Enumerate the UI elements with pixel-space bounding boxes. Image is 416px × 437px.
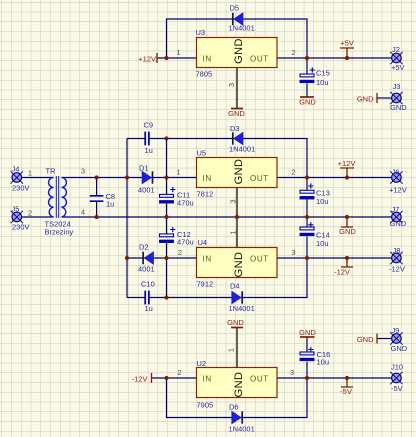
svg-text:OUT: OUT — [250, 255, 269, 264]
svg-text:1N4001: 1N4001 — [229, 304, 255, 313]
svg-text:10u: 10u — [316, 197, 329, 206]
svg-text:OUT: OUT — [250, 375, 269, 384]
svg-text:C10: C10 — [141, 280, 155, 289]
wire C10 row left segment — [127, 297, 145, 299]
svg-text:+12V: +12V — [389, 186, 407, 195]
wire C9 right through D3 then down to +12V rail — [150, 139, 307, 178]
svg-text:U4: U4 — [198, 238, 208, 247]
wire D5 loop from U3 input node up and over to U3 output node — [167, 19, 308, 58]
svg-text:J4: J4 — [12, 165, 20, 174]
svg-text:3: 3 — [291, 248, 295, 257]
svg-text:10u: 10u — [316, 239, 329, 248]
power port +12V on +12V rail — [338, 159, 356, 178]
capacitor C10 1u — [141, 280, 155, 314]
wire U4 IN node vertical down to D4 row — [166, 258, 168, 298]
wire -5V rail from U2 OUT to J10 — [277, 377, 392, 379]
power port GND above C16 — [299, 328, 316, 337]
wire +5V rail from U3 OUT to J2 — [277, 57, 392, 59]
wire transformer pin2 lead from J5 — [21, 216, 53, 218]
wire D6 loop under U2 — [167, 378, 308, 418]
svg-text:+5V: +5V — [340, 39, 354, 48]
svg-text:J2: J2 — [392, 45, 400, 54]
connector J2 +5V — [390, 45, 404, 72]
capacitor C13 10u polarized — [300, 183, 330, 206]
wire node C9right-D1cathode vertical — [166, 139, 168, 178]
svg-text:Brzeziny: Brzeziny — [45, 228, 74, 237]
svg-text:GND: GND — [233, 159, 245, 185]
diode D1 4001 — [138, 164, 155, 195]
power port GND at J3 — [357, 93, 377, 104]
svg-text:GND: GND — [390, 219, 407, 228]
svg-text:GND: GND — [339, 227, 356, 236]
wire D2 row to U4 IN — [127, 257, 197, 259]
svg-text:U3: U3 — [196, 28, 206, 37]
svg-text:-12V: -12V — [132, 375, 148, 384]
svg-text:7812: 7812 — [197, 190, 214, 199]
wire -12V rail from U4 OUT to J8 — [277, 257, 392, 259]
power port GND above U2 pin 1 — [227, 318, 244, 328]
svg-text:GND: GND — [357, 95, 374, 104]
svg-text:GND: GND — [233, 252, 245, 278]
svg-text:-12V: -12V — [334, 268, 350, 277]
svg-text:10u: 10u — [316, 78, 329, 87]
wire U5 GND pin 3 and U4 GND pin 1 — [236, 188, 238, 248]
svg-text:U2: U2 — [197, 359, 207, 368]
svg-text:IN: IN — [203, 174, 212, 183]
svg-text:IN: IN — [203, 255, 212, 264]
connector J3 GND — [390, 82, 407, 112]
wire -12V port to U2 IN pin 2 — [152, 377, 197, 379]
connector J8 -12V — [389, 246, 405, 274]
svg-text:GND: GND — [233, 38, 245, 64]
svg-text:1N4001: 1N4001 — [229, 425, 255, 434]
svg-text:-5V: -5V — [391, 384, 403, 393]
capacitor C12 470u polarized — [159, 227, 193, 247]
capacitor C8 1u — [90, 192, 115, 209]
svg-text:1N4001: 1N4001 — [229, 145, 255, 154]
svg-text:IN: IN — [203, 55, 212, 64]
wire C12 stems — [166, 217, 168, 258]
svg-text:1: 1 — [176, 48, 180, 57]
svg-text:3: 3 — [290, 368, 294, 377]
power port GND on GND rail — [339, 217, 356, 236]
wire transformer pin1 lead from J4 — [21, 177, 53, 179]
svg-text:J7: J7 — [392, 205, 400, 214]
svg-text:1u: 1u — [145, 304, 153, 313]
svg-text:2: 2 — [178, 248, 182, 257]
regulator U4 7912 — [178, 230, 296, 288]
transformer TR TS2024 — [45, 167, 86, 237]
power port +12V at U3 input — [138, 53, 157, 64]
power port GND below C15 — [299, 97, 316, 107]
capacitor C15 10u polarized — [300, 67, 330, 87]
wire +12V rail from U5 OUT to J6 — [277, 177, 392, 179]
svg-text:IN: IN — [203, 375, 212, 384]
svg-text:OUT: OUT — [250, 174, 269, 183]
svg-text:+12V: +12V — [138, 55, 156, 64]
svg-text:1N4001: 1N4001 — [229, 24, 255, 33]
power port -12V at U2 input — [132, 373, 152, 384]
power port GND below U3 pin 3 — [228, 109, 245, 119]
svg-text:4: 4 — [81, 208, 85, 217]
capacitor C9 1u — [144, 121, 154, 156]
svg-text:GND: GND — [391, 344, 408, 353]
svg-text:GND: GND — [299, 328, 316, 337]
svg-text:4001: 4001 — [138, 265, 155, 274]
svg-text:J8: J8 — [393, 246, 401, 255]
wire C11 stems — [166, 178, 168, 218]
power port +5V on +5V rail — [340, 39, 354, 59]
wire C14 stems — [306, 217, 308, 258]
capacitor C11 470u polarized — [159, 187, 193, 208]
connector J10 -5V — [390, 363, 403, 394]
svg-text:C15: C15 — [316, 69, 330, 78]
svg-text:J10: J10 — [391, 363, 403, 372]
svg-text:D3: D3 — [230, 124, 240, 133]
connector J7 GND — [390, 205, 407, 228]
svg-text:GND: GND — [227, 318, 244, 327]
wire U2 GND pin 1 up to GND port — [236, 328, 238, 368]
power port GND at J9 — [357, 334, 377, 345]
svg-text:3: 3 — [81, 167, 85, 176]
svg-text:1: 1 — [227, 348, 236, 352]
svg-text:D5: D5 — [230, 4, 240, 13]
svg-text:D6: D6 — [229, 403, 239, 412]
svg-text:+5V: +5V — [391, 63, 405, 72]
svg-text:230V: 230V — [12, 184, 30, 193]
svg-text:GND: GND — [390, 103, 407, 112]
svg-text:7905: 7905 — [197, 401, 214, 410]
svg-text:2: 2 — [177, 368, 181, 377]
svg-text:1: 1 — [28, 169, 32, 178]
connector J6 +12V — [389, 168, 407, 195]
svg-text:7912: 7912 — [197, 280, 214, 289]
svg-text:D4: D4 — [230, 282, 240, 291]
svg-text:1u: 1u — [106, 200, 114, 209]
diode D5 1N4001 — [229, 4, 255, 33]
svg-text:230V: 230V — [12, 223, 30, 232]
regulator U2 7905 — [177, 348, 294, 410]
svg-text:470u: 470u — [177, 238, 194, 247]
svg-text:D2: D2 — [139, 243, 149, 252]
svg-text:10u: 10u — [317, 358, 330, 367]
svg-text:GND: GND — [228, 109, 245, 118]
diode D6 1N4001 — [229, 403, 255, 434]
wire C8 stems — [96, 178, 98, 218]
svg-text:3: 3 — [229, 199, 238, 203]
svg-text:2: 2 — [291, 168, 295, 177]
regulator U3 7805 — [176, 28, 295, 87]
wire C13 stems — [306, 178, 308, 218]
wire C15 stems — [306, 58, 308, 97]
wire U3 GND pin 3 down to GND port — [236, 68, 238, 109]
svg-text:3: 3 — [227, 83, 236, 87]
wire transformer pin3 row through D1 to U5 IN — [62, 177, 197, 179]
svg-text:TR: TR — [46, 167, 57, 176]
diode D3 1N4001 — [229, 124, 255, 154]
wire +12V port to U3 IN pin 1 — [157, 57, 197, 59]
svg-text:OUT: OUT — [250, 55, 269, 64]
wire GND port to J9 — [377, 338, 392, 340]
wire C16 stems — [306, 338, 308, 379]
wire C10 right through D4 then up to -12V rail — [150, 258, 307, 298]
svg-text:GND: GND — [357, 335, 374, 344]
svg-text:4001: 4001 — [138, 186, 155, 195]
svg-text:C9: C9 — [144, 121, 154, 130]
diode D2 4001 — [138, 243, 155, 274]
power port -12V on -12V rail — [334, 258, 353, 277]
connector J9 GND — [390, 326, 408, 353]
diode D4 1N4001 — [229, 282, 255, 314]
svg-text:1: 1 — [176, 168, 180, 177]
svg-text:470u: 470u — [177, 199, 194, 208]
svg-text:-5V: -5V — [340, 387, 352, 396]
svg-text:+12V: +12V — [338, 159, 356, 168]
svg-text:J5: J5 — [12, 205, 20, 214]
power port -5V on -5V rail — [340, 378, 353, 396]
svg-text:-12V: -12V — [389, 265, 405, 274]
svg-text:J9: J9 — [392, 326, 400, 335]
svg-text:D1: D1 — [139, 164, 149, 173]
svg-text:7805: 7805 — [196, 70, 213, 79]
wire GND port to J3 — [377, 97, 392, 99]
svg-text:2: 2 — [28, 209, 32, 218]
svg-text:GND: GND — [233, 372, 245, 398]
capacitor C14 10u polarized — [300, 222, 330, 248]
wire GND rail from transformer pin4 to J7 — [62, 216, 393, 218]
svg-text:2: 2 — [291, 48, 295, 57]
capacitor C16 10u polarized — [300, 347, 330, 367]
svg-text:U5: U5 — [197, 149, 207, 158]
connector J4 230V — [11, 165, 32, 193]
regulator U5 7812 — [176, 149, 295, 204]
connector J5 230V — [11, 205, 32, 232]
svg-text:J6: J6 — [392, 168, 400, 177]
svg-text:1u: 1u — [145, 146, 153, 155]
wire C9 row left segment — [127, 138, 145, 140]
svg-text:GND: GND — [299, 98, 316, 107]
wire rectifier left vertical — [126, 139, 128, 298]
svg-text:1: 1 — [229, 230, 238, 234]
svg-text:J3: J3 — [393, 82, 401, 91]
